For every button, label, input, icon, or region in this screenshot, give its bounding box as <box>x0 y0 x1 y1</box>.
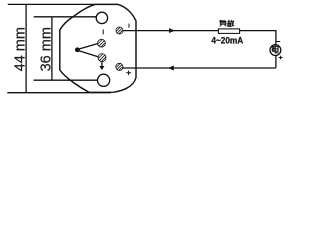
ground arrow below pin 2 <box>101 62 103 67</box>
bottom wire <box>123 67 276 69</box>
pin 1 label tick <box>102 29 104 34</box>
power supply minus mark <box>276 41 281 43</box>
top wire (left of load) <box>123 30 218 32</box>
dimension extension line top (36mm) <box>34 16 97 18</box>
bottom hole <box>98 74 110 86</box>
current arrow left <box>169 66 174 70</box>
dimension extension line bottom (36mm) <box>34 79 98 81</box>
top hole <box>96 12 107 23</box>
power supply glyph dian <box>272 45 278 53</box>
current arrow right <box>169 29 174 33</box>
dimension line 36mm <box>51 17 53 80</box>
label fuzai (load) glyph 2 <box>227 20 234 27</box>
connector body outline <box>60 4 136 92</box>
center screw dot <box>76 48 80 52</box>
svg-text:4~20mA: 4~20mA <box>211 35 243 45</box>
power supply circle <box>270 45 281 56</box>
top wire (right of load) + right corner <box>240 31 276 45</box>
dimension extension line top (44mm) <box>8 3 95 5</box>
dimension line 44mm <box>25 4 27 92</box>
pin 1 <box>98 39 106 47</box>
dimension extension line bottom (44mm) <box>7 92 111 94</box>
terminal pin top <box>116 27 123 34</box>
right wire below supply <box>275 56 277 68</box>
wire dot to pin2 <box>79 51 98 57</box>
load resistor box <box>218 29 239 34</box>
wire dot to pin1 <box>79 44 98 49</box>
terminal top label tick <box>128 24 130 28</box>
svg-text:44 mm: 44 mm <box>13 27 29 71</box>
terminal bottom label plus <box>126 71 131 76</box>
label fuzai (load) glyph 1 <box>219 20 226 26</box>
power supply plus mark <box>279 56 283 60</box>
pin 2 <box>98 54 106 62</box>
terminal pin bottom <box>116 63 123 70</box>
svg-text:36 mm: 36 mm <box>39 27 55 71</box>
